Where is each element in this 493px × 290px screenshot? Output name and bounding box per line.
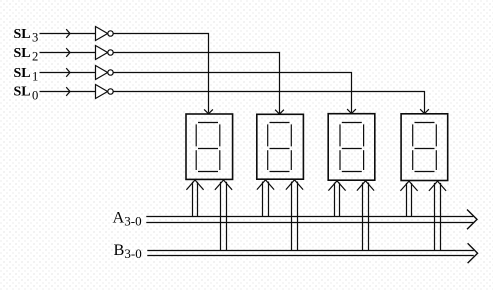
wire bus A taps to DS1 xyxy=(186,180,203,217)
wire bus B taps to DS4 xyxy=(429,181,446,250)
svg-text:B3-0: B3-0 xyxy=(114,240,142,261)
display DS2 (7-segment) xyxy=(257,114,304,179)
label SL0 xyxy=(14,85,39,103)
wire U3 output to display DS3 top xyxy=(113,73,356,114)
wire bus A taps to DS4 xyxy=(400,181,417,216)
label A3-0 xyxy=(113,208,142,229)
inverter U2 xyxy=(96,46,114,60)
display DS4 (7-segment) xyxy=(401,114,448,181)
svg-text:SL1: SL1 xyxy=(14,66,39,84)
wire bus A taps to DS3 xyxy=(328,181,345,217)
wire SL1 input xyxy=(40,68,96,77)
svg-text:SL2: SL2 xyxy=(14,46,39,64)
wire U1 output to display DS1 top xyxy=(113,34,213,114)
inverter U4 xyxy=(96,85,114,99)
svg-text:SL0: SL0 xyxy=(14,85,39,103)
inverter U1 xyxy=(96,27,114,41)
wire bus A taps to DS2 xyxy=(257,180,274,217)
display DS1 (7-segment) xyxy=(186,114,233,179)
svg-text:A3-0: A3-0 xyxy=(113,208,142,229)
label SL2 xyxy=(14,46,39,64)
wire SL0 input xyxy=(40,87,96,96)
inverter U3 xyxy=(96,66,114,80)
label SL1 xyxy=(14,66,39,84)
wire SL2 input xyxy=(40,48,96,57)
wire SL3 input xyxy=(40,29,96,38)
svg-text:SL3: SL3 xyxy=(14,27,39,45)
wire bus B taps to DS2 xyxy=(286,180,303,251)
bus B xyxy=(147,243,477,263)
wire U2 output to display DS2 top xyxy=(113,53,284,115)
display DS3 (7-segment) xyxy=(328,114,375,181)
label B3-0 xyxy=(114,240,142,261)
wire bus B taps to DS3 xyxy=(357,181,374,251)
bus A xyxy=(146,210,477,230)
wire bus B taps to DS1 xyxy=(215,180,232,251)
wire U4 output to display DS4 top xyxy=(113,92,429,114)
label SL3 xyxy=(14,27,39,45)
